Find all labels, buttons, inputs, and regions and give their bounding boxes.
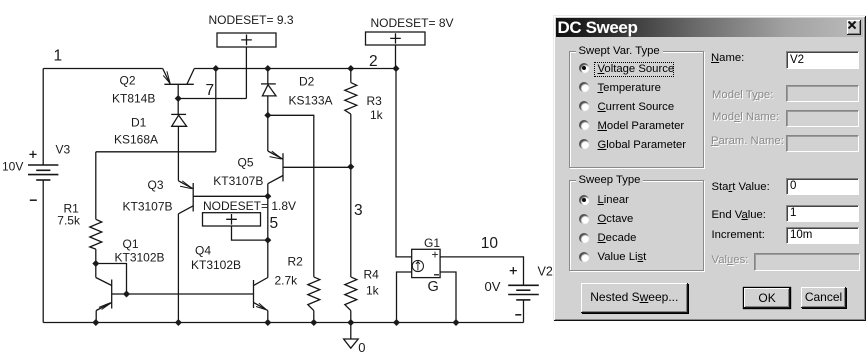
battery V3 <box>2 143 71 201</box>
resistor R4 1k <box>345 268 380 323</box>
svg-text:1k: 1k <box>366 284 380 298</box>
transistor Q4 KT3102B <box>191 244 268 323</box>
svg-text:0: 0 <box>358 340 365 353</box>
svg-text:KT3102B: KT3102B <box>115 251 165 265</box>
svg-text:1: 1 <box>54 48 63 65</box>
svg-text:Q4: Q4 <box>195 244 211 258</box>
svg-text:D2: D2 <box>299 75 315 89</box>
svg-text:NODESET= 1.8V: NODESET= 1.8V <box>203 199 296 213</box>
transistor Q1 KT3102B <box>96 237 165 323</box>
resistor R1 7.5k <box>57 152 102 264</box>
wire: left rail top (node 1 to V3 +) <box>42 69 44 166</box>
NODESET= 1.8V (box and lead) <box>203 199 297 240</box>
svg-text:NODESET= 9.3: NODESET= 9.3 <box>209 13 294 27</box>
wire: horizontal to R1 top <box>96 151 216 153</box>
junction dots <box>212 65 219 72</box>
transistor Q3 KT3107B (PNP) <box>123 178 194 214</box>
svg-text:KT814B: KT814B <box>112 92 155 106</box>
svg-text:7: 7 <box>206 82 215 99</box>
wire: G1 output + to node 10 / V2 <box>440 257 523 285</box>
svg-text:G1: G1 <box>424 236 440 250</box>
svg-text:KT3107B: KT3107B <box>213 174 263 188</box>
wire: left rail bottom (V3 - to ground rail) <box>42 180 44 323</box>
NODESET= 8V (box and lead) <box>366 16 454 69</box>
svg-text:5: 5 <box>270 215 279 232</box>
svg-text:KT3102B: KT3102B <box>191 258 241 272</box>
svg-text:Q5: Q5 <box>238 156 254 170</box>
svg-text:KS133A: KS133A <box>289 94 333 108</box>
wire: node 7 horizontal (Q2 base / D1 to NODESET lead) <box>178 98 246 100</box>
svg-text:KS168A: KS168A <box>114 132 158 146</box>
svg-text:V3: V3 <box>56 143 71 157</box>
wire: Q2 collector to node-2 rail <box>194 68 396 70</box>
wire: bottom ground rail <box>43 322 523 324</box>
wire: node 3 vertical <box>350 167 352 277</box>
wire: top rail node 1/2 left segment <box>43 68 163 70</box>
wire: Q5 collector to node 5 vertical <box>267 184 269 278</box>
svg-text:10V: 10V <box>2 160 23 174</box>
transistor Q5 KT3107B (PNP) <box>213 115 283 188</box>
wire: Q1 collector-base tie loop <box>96 264 127 295</box>
svg-text:R3: R3 <box>367 94 383 108</box>
svg-text:G: G <box>428 279 439 295</box>
diode D1 KS168A <box>114 99 187 181</box>
wire: base rail from Q1 base junction to Q4 base <box>127 293 254 295</box>
wire: D2 bottom to R2 branch <box>268 115 314 277</box>
wire: Q3 base to node 5 junction <box>193 195 268 197</box>
resistor R2 2.7k <box>275 255 320 323</box>
wire: G1 lower-left to ground rail <box>397 272 412 323</box>
wire: vertical from collector rail dot down to R1 wire <box>215 69 217 152</box>
svg-text:NODESET= 8V: NODESET= 8V <box>371 16 454 30</box>
svg-text:10: 10 <box>481 235 499 252</box>
ground (node 0) <box>344 323 366 353</box>
svg-text:3: 3 <box>354 202 363 219</box>
svg-text:Q3: Q3 <box>148 178 164 192</box>
svg-text:Q2: Q2 <box>120 74 136 88</box>
svg-text:2: 2 <box>369 53 378 70</box>
wire: Q5 base to node 3 <box>283 166 351 168</box>
svg-text:1k: 1k <box>370 108 384 122</box>
wire: G1 output - to ground rail <box>440 272 456 323</box>
svg-text:7.5k: 7.5k <box>57 213 81 227</box>
wire: Q3 collector down to ground rail <box>177 214 179 323</box>
svg-text:V2: V2 <box>538 265 553 279</box>
svg-text:R2: R2 <box>288 255 304 269</box>
VCCS G1 <box>412 236 441 295</box>
transistor Q2 KT814B (PNP, rotated) <box>112 69 194 106</box>
svg-text:R4: R4 <box>364 268 380 282</box>
resistor R3 1k <box>345 69 384 167</box>
NODESET= 9.3 (box and lead) <box>209 13 294 99</box>
wire: node 2 vertical down to G1 input <box>396 69 412 257</box>
diode D2 KS133A <box>261 69 333 116</box>
svg-text:2.7k: 2.7k <box>275 273 299 287</box>
svg-text:Q1: Q1 <box>123 237 139 251</box>
svg-text:KT3107B: KT3107B <box>123 200 173 214</box>
battery V2 0V <box>485 265 553 323</box>
svg-text:D1: D1 <box>131 116 147 130</box>
svg-text:0V: 0V <box>485 279 501 294</box>
